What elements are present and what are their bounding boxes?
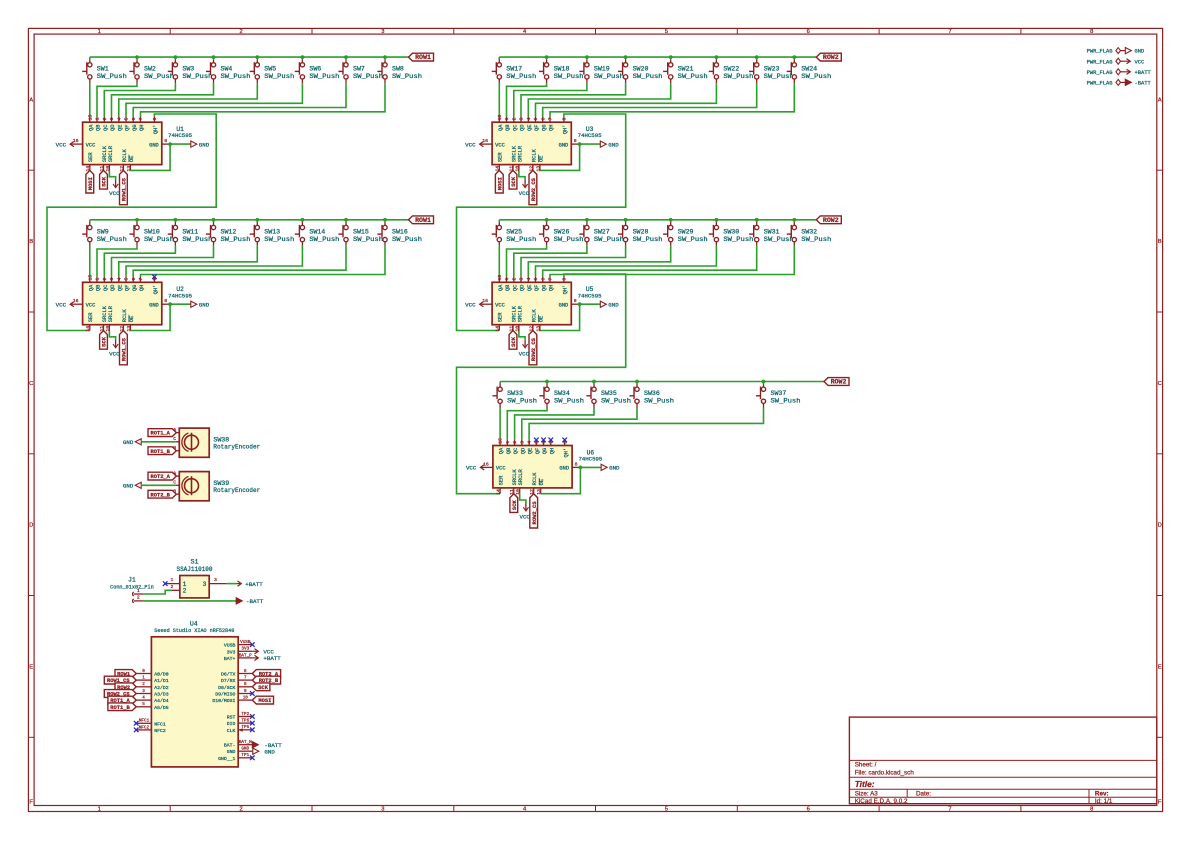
svg-text:ROW1_CS: ROW1_CS <box>121 337 128 361</box>
svg-text:NFC2: NFC2 <box>154 728 166 734</box>
svg-text:SCK: SCK <box>511 499 518 510</box>
svg-text:SW14: SW14 <box>309 228 325 235</box>
svg-text:GND: GND <box>227 749 236 755</box>
svg-text:SW32: SW32 <box>801 228 817 235</box>
svg-text:DIO: DIO <box>227 721 236 727</box>
svg-text:NFC2: NFC2 <box>139 725 150 730</box>
svg-text:12: 12 <box>529 489 535 495</box>
svg-text:74HC595: 74HC595 <box>578 292 602 299</box>
svg-text:ROW1: ROW1 <box>415 217 431 224</box>
svg-text:12: 12 <box>528 326 534 332</box>
svg-text:MOSI: MOSI <box>496 177 503 190</box>
svg-text:10: 10 <box>514 326 520 332</box>
svg-text:2: 2 <box>512 441 518 444</box>
svg-text:J1: J1 <box>128 577 136 584</box>
svg-text:5: 5 <box>665 29 668 35</box>
svg-text:QH': QH' <box>153 285 159 295</box>
svg-text:QB: QB <box>96 124 102 131</box>
svg-text:QD: QD <box>110 285 116 291</box>
svg-text:1: 1 <box>98 29 101 35</box>
svg-text:OE: OE <box>538 316 544 322</box>
svg-text:14: 14 <box>496 489 502 495</box>
svg-text:E: E <box>29 665 33 671</box>
svg-text:QB: QB <box>506 447 512 454</box>
svg-text:ROW1: ROW1 <box>415 54 431 61</box>
svg-text:SW_Push: SW_Push <box>353 236 383 243</box>
svg-text:2: 2 <box>183 588 187 595</box>
svg-text:A: A <box>1158 97 1162 103</box>
svg-text:SW_Push: SW_Push <box>723 73 753 80</box>
svg-text:GND: GND <box>199 301 210 308</box>
svg-text:GND: GND <box>199 141 210 148</box>
svg-text:SW31: SW31 <box>764 228 780 235</box>
svg-text:3: 3 <box>519 117 525 120</box>
svg-text:SW_Push: SW_Push <box>601 398 631 405</box>
svg-text:SW13: SW13 <box>264 228 280 235</box>
svg-text:+BATT: +BATT <box>263 655 281 662</box>
svg-text:10: 10 <box>243 696 249 701</box>
svg-text:SER: SER <box>498 312 504 322</box>
svg-text:TP6: TP6 <box>241 719 249 724</box>
svg-text:GND: GND <box>149 142 159 148</box>
svg-text:SER: SER <box>88 312 94 322</box>
svg-text:SW_Push: SW_Push <box>506 73 536 80</box>
svg-text:1: 1 <box>98 807 101 813</box>
svg-text:A: A <box>29 97 33 103</box>
svg-text:SW_Push: SW_Push <box>764 73 794 80</box>
svg-text:QH': QH' <box>563 125 569 135</box>
svg-text:74HC595: 74HC595 <box>168 292 192 299</box>
svg-text:VCC: VCC <box>56 301 67 308</box>
svg-text:3: 3 <box>203 581 207 588</box>
svg-text:SW_Push: SW_Push <box>221 236 251 243</box>
svg-text:D7/RX: D7/RX <box>221 678 236 684</box>
svg-text:RotaryEncoder: RotaryEncoder <box>213 444 260 451</box>
svg-text:VCC: VCC <box>86 142 96 148</box>
svg-text:8: 8 <box>164 138 167 144</box>
svg-text:RST: RST <box>227 715 236 721</box>
svg-text:F: F <box>1158 800 1162 806</box>
svg-text:10: 10 <box>514 166 520 172</box>
svg-text:SW39: SW39 <box>213 480 229 487</box>
svg-text:3: 3 <box>214 577 217 583</box>
svg-text:QB: QB <box>96 284 102 291</box>
svg-text:SW_Push: SW_Push <box>392 73 422 80</box>
svg-text:2: 2 <box>511 117 517 120</box>
svg-text:11: 11 <box>509 489 515 495</box>
svg-text:QG: QG <box>132 125 138 131</box>
svg-text:SW_Push: SW_Push <box>554 73 584 80</box>
svg-text:5: 5 <box>665 807 668 813</box>
svg-text:SW_Push: SW_Push <box>771 398 801 405</box>
svg-text:4: 4 <box>142 696 145 701</box>
svg-text:5: 5 <box>533 117 539 120</box>
svg-text:SW_Push: SW_Push <box>221 73 251 80</box>
svg-text:QF: QF <box>125 285 131 291</box>
svg-text:QA: QA <box>88 124 94 131</box>
svg-text:SW_Push: SW_Push <box>644 398 674 405</box>
svg-text:12: 12 <box>528 166 534 172</box>
svg-text:10: 10 <box>515 489 521 495</box>
svg-text:8: 8 <box>1090 807 1093 813</box>
svg-text:SW10: SW10 <box>144 228 160 235</box>
svg-text:SW6: SW6 <box>309 66 321 73</box>
svg-text:QF: QF <box>535 448 541 454</box>
svg-text:RotaryEncoder: RotaryEncoder <box>213 487 260 494</box>
svg-text:QH: QH <box>549 448 555 454</box>
svg-text:SCK: SCK <box>101 176 108 187</box>
svg-text:3: 3 <box>381 29 384 35</box>
svg-text:SW29: SW29 <box>678 228 694 235</box>
svg-text:QC: QC <box>103 125 109 131</box>
svg-text:VCC: VCC <box>86 303 96 309</box>
svg-text:QG: QG <box>541 285 547 291</box>
svg-text:6: 6 <box>807 29 810 35</box>
svg-text:11: 11 <box>508 326 514 332</box>
svg-text:VCC: VCC <box>495 142 505 148</box>
svg-text:15: 15 <box>497 115 503 121</box>
svg-text:8: 8 <box>164 298 167 304</box>
svg-text:TP1: TP1 <box>241 753 249 758</box>
svg-text:SW9: SW9 <box>97 228 109 235</box>
svg-text:1: 1 <box>95 278 101 281</box>
svg-text:S1: S1 <box>191 558 199 565</box>
svg-text:74HC595: 74HC595 <box>578 132 602 139</box>
svg-text:SER: SER <box>499 475 505 485</box>
svg-text:QG: QG <box>542 448 548 454</box>
svg-text:SW22: SW22 <box>723 66 739 73</box>
svg-text:5: 5 <box>533 278 539 281</box>
svg-text:74HC595: 74HC595 <box>168 132 192 139</box>
svg-text:GND: GND <box>559 303 569 309</box>
svg-text:QG: QG <box>132 285 138 291</box>
svg-text:SW37: SW37 <box>771 390 787 397</box>
svg-text:VUSB: VUSB <box>224 643 236 649</box>
svg-text:QE: QE <box>527 285 533 291</box>
svg-text:SW_Push: SW_Push <box>633 73 663 80</box>
svg-text:-BATT: -BATT <box>246 598 264 605</box>
svg-text:GND: GND <box>264 749 275 756</box>
svg-text:PWR_FLAG: PWR_FLAG <box>1087 49 1113 55</box>
svg-text:D8/SCK: D8/SCK <box>218 685 235 691</box>
svg-text:ROW2_CS: ROW2_CS <box>530 337 537 361</box>
svg-text:SW_Push: SW_Push <box>97 73 127 80</box>
svg-text:11: 11 <box>99 326 105 332</box>
svg-text:9: 9 <box>562 278 568 281</box>
svg-text:GND: GND <box>123 439 134 446</box>
svg-text:9: 9 <box>562 117 568 120</box>
svg-text:OE: OE <box>129 156 135 162</box>
svg-text:QH: QH <box>549 285 555 291</box>
svg-text:6: 6 <box>244 669 247 674</box>
svg-text:SW3: SW3 <box>182 66 194 73</box>
svg-text:5: 5 <box>142 702 145 707</box>
svg-text:SRCLR: SRCLR <box>108 305 114 322</box>
svg-text:SCK: SCK <box>510 336 517 347</box>
svg-text:D: D <box>29 523 33 529</box>
svg-text:VCC: VCC <box>495 303 505 309</box>
svg-text:SW_Push: SW_Push <box>264 73 294 80</box>
svg-text:QC: QC <box>103 285 109 291</box>
svg-text:6: 6 <box>807 807 810 813</box>
svg-text:Date:: Date: <box>916 791 931 798</box>
svg-text:SW30: SW30 <box>723 228 739 235</box>
svg-text:SW19: SW19 <box>594 66 610 73</box>
svg-text:GND: GND <box>559 142 569 148</box>
svg-text:GND__1: GND__1 <box>218 756 235 762</box>
svg-text:QH': QH' <box>563 285 569 295</box>
svg-text:QF: QF <box>534 125 540 131</box>
svg-text:15: 15 <box>87 275 93 281</box>
svg-text:-BATT: -BATT <box>1135 81 1152 87</box>
svg-text:16: 16 <box>73 138 79 144</box>
svg-text:Seeed Studio XIAO nRF52840: Seeed Studio XIAO nRF52840 <box>154 627 234 634</box>
svg-text:RCLK: RCLK <box>531 148 537 162</box>
svg-text:4: 4 <box>526 117 532 120</box>
svg-text:6: 6 <box>540 117 546 120</box>
svg-text:1: 1 <box>95 117 101 120</box>
svg-text:SW20: SW20 <box>633 66 649 73</box>
svg-text:KiCad E.D.A. 9.0.2: KiCad E.D.A. 9.0.2 <box>855 798 908 805</box>
svg-text:SW_Push: SW_Push <box>309 236 339 243</box>
svg-text:9: 9 <box>244 689 247 694</box>
svg-text:2: 2 <box>511 278 517 281</box>
svg-text:VCC: VCC <box>465 301 476 308</box>
svg-text:3V3: 3V3 <box>241 647 249 652</box>
svg-text:F: F <box>29 800 33 806</box>
svg-text:C: C <box>1158 381 1162 387</box>
svg-text:SW12: SW12 <box>221 228 237 235</box>
svg-text:10: 10 <box>105 166 111 172</box>
svg-text:SW36: SW36 <box>644 390 660 397</box>
svg-text:3: 3 <box>519 278 525 281</box>
svg-text:GND: GND <box>241 747 249 752</box>
svg-text:5: 5 <box>124 117 130 120</box>
svg-text:1: 1 <box>137 588 140 594</box>
svg-text:QH: QH <box>139 125 145 131</box>
svg-text:8: 8 <box>574 298 577 304</box>
svg-text:QE: QE <box>527 125 533 131</box>
svg-text:Id: 1/1: Id: 1/1 <box>1095 798 1113 805</box>
svg-text:6: 6 <box>540 278 546 281</box>
svg-text:SCK: SCK <box>258 685 268 691</box>
svg-text:GND: GND <box>149 303 159 309</box>
svg-text:QA: QA <box>498 284 504 291</box>
svg-text:QF: QF <box>125 125 131 131</box>
svg-text:16: 16 <box>482 298 488 304</box>
svg-text:3: 3 <box>381 807 384 813</box>
svg-text:SW_Push: SW_Push <box>507 398 537 405</box>
svg-text:SW_Push: SW_Push <box>182 73 212 80</box>
svg-text:7: 7 <box>138 117 144 120</box>
svg-text:SW33: SW33 <box>507 390 523 397</box>
svg-text:2: 2 <box>102 278 108 281</box>
svg-text:14: 14 <box>85 326 91 332</box>
svg-text:D10/MOSI: D10/MOSI <box>212 698 235 704</box>
svg-text:NFC1: NFC1 <box>139 719 150 724</box>
svg-text:PWR_FLAG: PWR_FLAG <box>1087 81 1113 87</box>
svg-text:3: 3 <box>519 441 525 444</box>
svg-text:SW_Push: SW_Push <box>554 398 584 405</box>
svg-text:5: 5 <box>124 278 130 281</box>
svg-text:SW4: SW4 <box>221 66 233 73</box>
svg-text:SW35: SW35 <box>601 390 617 397</box>
svg-text:13: 13 <box>536 489 542 495</box>
svg-text:SER: SER <box>88 152 94 162</box>
svg-text:OE: OE <box>129 316 135 322</box>
svg-text:SW26: SW26 <box>554 228 570 235</box>
svg-text:QD: QD <box>520 448 526 454</box>
svg-text:4: 4 <box>116 278 122 281</box>
svg-text:12: 12 <box>119 326 125 332</box>
svg-text:CLK: CLK <box>227 728 236 734</box>
svg-text:GND: GND <box>609 465 620 472</box>
svg-text:SW28: SW28 <box>633 228 649 235</box>
svg-text:7: 7 <box>948 807 951 813</box>
svg-text:A0/D0: A0/D0 <box>154 672 169 678</box>
svg-text:SCK: SCK <box>101 336 108 347</box>
svg-text:GND: GND <box>608 141 619 148</box>
svg-text:SW2: SW2 <box>144 66 156 73</box>
svg-text:SW_Push: SW_Push <box>594 236 624 243</box>
svg-text:QF: QF <box>534 285 540 291</box>
svg-text:11: 11 <box>508 166 514 172</box>
svg-text:ROW2: ROW2 <box>823 54 839 61</box>
svg-text:7: 7 <box>548 117 554 120</box>
svg-text:14: 14 <box>495 166 501 172</box>
svg-text:13: 13 <box>126 326 132 332</box>
svg-text:15: 15 <box>497 275 503 281</box>
svg-text:ROT1_B: ROT1_B <box>150 449 170 455</box>
svg-text:QA: QA <box>499 447 505 454</box>
svg-text:12: 12 <box>119 166 125 172</box>
svg-text:SW_Push: SW_Push <box>182 236 212 243</box>
svg-text:SW5: SW5 <box>264 66 276 73</box>
svg-text:MOSI: MOSI <box>87 177 94 190</box>
svg-text:OE: OE <box>538 156 544 162</box>
svg-text:B: B <box>1158 239 1162 245</box>
svg-text:Sheet: /: Sheet: / <box>855 762 877 769</box>
svg-text:BAT-: BAT- <box>224 743 236 749</box>
svg-text:ROT2_A: ROT2_A <box>150 474 170 480</box>
svg-text:8: 8 <box>575 461 578 467</box>
svg-text:10: 10 <box>105 326 111 332</box>
svg-text:2: 2 <box>102 117 108 120</box>
svg-text:2: 2 <box>142 682 145 687</box>
svg-text:3: 3 <box>142 689 145 694</box>
svg-text:7: 7 <box>548 278 554 281</box>
svg-text:SRCLR: SRCLR <box>517 305 523 322</box>
svg-text:11: 11 <box>99 166 105 172</box>
svg-text:SW_Push: SW_Push <box>97 236 127 243</box>
svg-text:VUSB: VUSB <box>240 640 251 645</box>
svg-text:SW_Push: SW_Push <box>764 236 794 243</box>
svg-text:ROW2: ROW2 <box>823 217 839 224</box>
svg-text:RCLK: RCLK <box>122 308 128 322</box>
svg-text:ROT2_B: ROT2_B <box>150 492 170 498</box>
svg-text:VCC: VCC <box>109 190 120 197</box>
svg-text:ROW2: ROW2 <box>831 379 847 386</box>
svg-text:A2/D2: A2/D2 <box>154 685 169 691</box>
svg-text:7: 7 <box>948 29 951 35</box>
svg-text:8: 8 <box>244 682 247 687</box>
svg-text:QH: QH <box>139 285 145 291</box>
svg-text:1: 1 <box>504 117 510 120</box>
svg-text:SW15: SW15 <box>353 228 369 235</box>
svg-text:2: 2 <box>170 584 173 590</box>
svg-text:6: 6 <box>131 278 137 281</box>
svg-text:QC: QC <box>512 285 518 291</box>
svg-text:74HC595: 74HC595 <box>578 456 602 463</box>
svg-text:VCC: VCC <box>109 350 120 357</box>
svg-text:QG: QG <box>541 125 547 131</box>
svg-text:QH': QH' <box>563 448 569 458</box>
svg-text:Conn_01x02_Pin: Conn_01x02_Pin <box>110 585 154 591</box>
svg-text:PWR_FLAG: PWR_FLAG <box>1087 59 1113 65</box>
svg-text:SW_Push: SW_Push <box>506 236 536 243</box>
svg-text:TP2: TP2 <box>241 712 249 717</box>
svg-text:SCK: SCK <box>510 176 517 187</box>
svg-text:SW_Push: SW_Push <box>392 236 422 243</box>
svg-text:GND: GND <box>608 301 619 308</box>
svg-text:SW_Push: SW_Push <box>801 236 831 243</box>
svg-text:13: 13 <box>535 326 541 332</box>
svg-text:2: 2 <box>239 807 242 813</box>
svg-text:7: 7 <box>138 278 144 281</box>
svg-text:QD: QD <box>520 285 526 291</box>
svg-text:1: 1 <box>505 441 511 444</box>
svg-text:QE: QE <box>117 125 123 131</box>
svg-text:C: C <box>29 381 33 387</box>
svg-text:D9/MISO: D9/MISO <box>215 692 235 698</box>
svg-text:VCC: VCC <box>466 465 477 472</box>
svg-text:8: 8 <box>574 138 577 144</box>
svg-text:SW27: SW27 <box>594 228 610 235</box>
svg-text:E: E <box>1158 665 1162 671</box>
svg-text:A3/D3: A3/D3 <box>154 692 169 698</box>
svg-text:GND: GND <box>559 466 569 472</box>
svg-text:4: 4 <box>116 117 122 120</box>
svg-text:VCC: VCC <box>56 141 67 148</box>
svg-text:7: 7 <box>244 676 247 681</box>
svg-text:SW_Push: SW_Push <box>309 73 339 80</box>
svg-text:Rev:: Rev: <box>1095 791 1109 798</box>
svg-text:1: 1 <box>504 278 510 281</box>
svg-text:SRCLR: SRCLR <box>517 145 523 162</box>
svg-text:BAT+: BAT+ <box>224 656 236 662</box>
svg-text:14: 14 <box>85 166 91 172</box>
svg-text:3: 3 <box>109 117 115 120</box>
svg-text:PWR_FLAG: PWR_FLAG <box>1087 70 1113 76</box>
svg-text:D: D <box>1158 523 1162 529</box>
svg-text:13: 13 <box>535 166 541 172</box>
svg-text:SW24: SW24 <box>801 66 817 73</box>
svg-text:SW23: SW23 <box>764 66 780 73</box>
svg-text:1: 1 <box>171 577 174 583</box>
svg-text:SW_Push: SW_Push <box>801 73 831 80</box>
svg-text:File: cardo.kicad_sch: File: cardo.kicad_sch <box>855 769 915 776</box>
svg-text:NFC1: NFC1 <box>154 721 166 727</box>
svg-text:ROW2_CS: ROW2_CS <box>530 177 537 201</box>
svg-text:RCLK: RCLK <box>122 148 128 162</box>
svg-text:8: 8 <box>1090 29 1093 35</box>
svg-text:SW16: SW16 <box>392 228 408 235</box>
svg-text:4: 4 <box>526 278 532 281</box>
svg-text:ROW1_CS: ROW1_CS <box>121 177 128 201</box>
svg-text:SW8: SW8 <box>392 66 404 73</box>
svg-text:QH: QH <box>549 125 555 131</box>
svg-text:Size: A3: Size: A3 <box>855 791 879 798</box>
